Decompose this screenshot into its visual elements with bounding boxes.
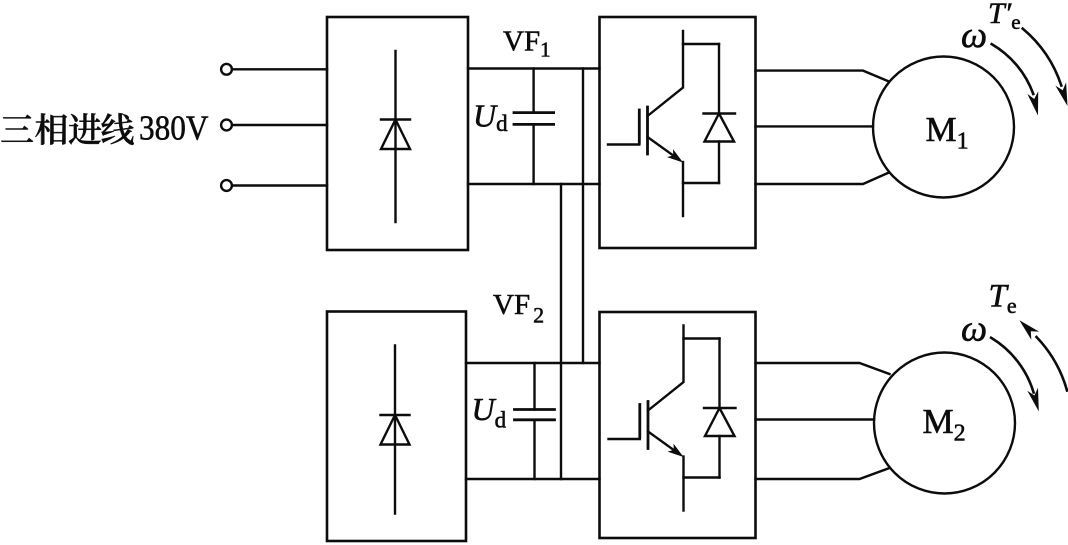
- input terminal C: [221, 180, 232, 191]
- input terminal B: [221, 120, 232, 131]
- wire: inverter 2 output phase V: [756, 418, 875, 420]
- svg-text:ω: ω: [961, 309, 987, 350]
- wire: inverter 1 output phase W: [756, 173, 890, 185]
- char 线: [101, 113, 133, 145]
- wire: inverter 2 output phase U: [756, 363, 890, 374]
- inverter 1 box (VF1 output stage): [600, 17, 756, 248]
- label: three-phase supply text 三相进线 380V: [1, 109, 208, 148]
- rectifier 2 box (VF2 input bridge): [327, 312, 466, 542]
- inverter 2 box (VF2 output stage): [600, 312, 756, 538]
- diode D4 (freewheel, inverter 2): [704, 339, 736, 478]
- capacitor C2 (VF2 DC link): [515, 363, 555, 479]
- wire: inverter 1 output phase U: [756, 71, 890, 82]
- arrow: M2 torque direction (counter-clockwise, braking): [1019, 320, 1067, 390]
- wire: DC- link from VF1 bus down to VF2 bottom bus: [560, 184, 562, 479]
- svg-text:380V: 380V: [139, 109, 209, 148]
- char 三: [1, 115, 33, 142]
- transistor Q2 (IGBT, inverter 2): [609, 326, 720, 511]
- svg-text:ω: ω: [961, 15, 987, 56]
- char 进: [69, 113, 101, 144]
- wire: inverter 1 output phase V: [756, 125, 874, 127]
- arrow: M2 speed direction (clockwise): [991, 338, 1039, 412]
- wire: phase A to rectifier 1: [232, 68, 327, 70]
- wire: DC+ link from VF1 bus down to VF2 top bus: [582, 69, 584, 364]
- diode D2 (freewheel, inverter 1): [704, 44, 736, 183]
- wire: phase C to rectifier 1: [232, 184, 327, 186]
- motor M2: [874, 353, 1015, 494]
- arrow: M1 torque direction (clockwise): [1023, 29, 1068, 106]
- capacitor C1 (VF1 DC link): [514, 69, 554, 185]
- wire: VF2 DC+ bus: [466, 362, 600, 364]
- wire: inverter 2 output phase W: [756, 468, 890, 479]
- diode D3 (rectifier 2 symbol): [381, 346, 410, 514]
- motor M1: [873, 57, 1014, 198]
- input terminal A: [221, 64, 232, 75]
- wire: VF1 DC+ bus: [468, 67, 600, 69]
- char 相: [35, 113, 67, 144]
- diode D1 (rectifier 1 symbol): [381, 51, 410, 222]
- rectifier 1 box (VF1 input bridge): [327, 17, 468, 250]
- arrow: M1 speed direction (clockwise): [992, 44, 1038, 115]
- wire: VF2 DC- bus: [466, 478, 600, 480]
- wire: VF1 DC- bus: [468, 183, 600, 185]
- wire: phase B to rectifier 1: [232, 124, 327, 126]
- transistor Q1 (IGBT, inverter 1): [608, 31, 719, 216]
